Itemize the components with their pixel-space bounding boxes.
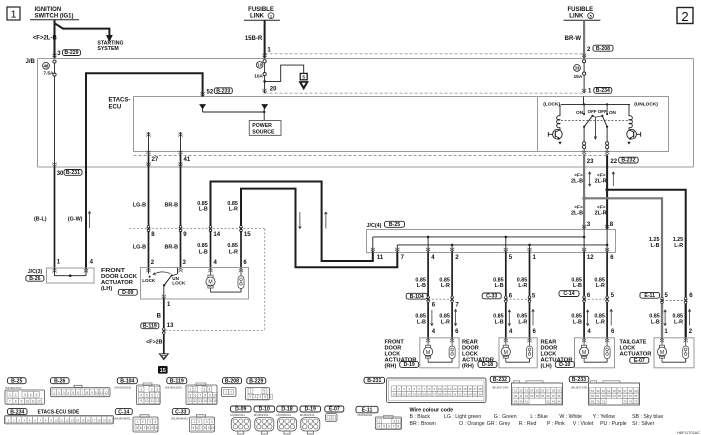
svg-text:7: 7 <box>144 426 146 430</box>
svg-text:26: 26 <box>541 389 545 393</box>
svg-text:L : Blue: L : Blue <box>530 414 548 420</box>
svg-text:3: 3 <box>63 391 65 395</box>
svg-text:52: 52 <box>596 389 600 393</box>
svg-text:L-B: L-B <box>495 319 504 325</box>
svg-text:43: 43 <box>552 399 556 403</box>
svg-text:6: 6 <box>388 425 390 429</box>
svg-text:13: 13 <box>198 399 202 403</box>
svg-text:27: 27 <box>546 389 550 393</box>
svg-text:40: 40 <box>519 399 523 403</box>
svg-text:2: 2 <box>250 395 252 399</box>
svg-text:64: 64 <box>613 394 617 398</box>
svg-text:5: 5 <box>302 75 305 80</box>
svg-text:(B-L): (B-L) <box>34 216 47 222</box>
svg-text:M: M <box>582 350 586 356</box>
svg-text:J/C(3): J/C(3) <box>28 269 43 275</box>
svg-text:LG-B: LG-B <box>133 202 146 208</box>
svg-text:3: 3 <box>156 388 158 392</box>
svg-text:ETACS-: ETACS- <box>109 97 131 103</box>
svg-text:11: 11 <box>189 399 193 403</box>
svg-text:5: 5 <box>193 426 195 430</box>
svg-text:22: 22 <box>408 393 412 397</box>
svg-text:12: 12 <box>156 399 160 403</box>
svg-text:(UNLOCK): (UNLOCK) <box>634 102 658 108</box>
svg-text:44: 44 <box>557 399 561 403</box>
svg-text:2: 2 <box>151 388 153 392</box>
svg-text:4: 4 <box>211 420 213 424</box>
svg-text:B-231: B-231 <box>367 378 381 384</box>
svg-text:0.85: 0.85 <box>197 243 208 249</box>
svg-text:4: 4 <box>259 395 261 399</box>
svg-text:7.5A: 7.5A <box>43 70 54 76</box>
svg-text:19: 19 <box>392 393 396 397</box>
svg-text:1: 1 <box>140 388 142 392</box>
svg-text:L-B: L-B <box>651 319 660 325</box>
svg-text:67: 67 <box>629 394 633 398</box>
svg-text:B-234: B-234 <box>10 409 24 415</box>
svg-text:68: 68 <box>634 394 638 398</box>
svg-text:(LH): (LH) <box>541 364 552 370</box>
svg-text:62: 62 <box>602 394 606 398</box>
svg-text:ON: ON <box>576 110 584 115</box>
svg-text:26: 26 <box>428 393 432 397</box>
svg-text:15: 15 <box>463 387 467 391</box>
svg-text:12: 12 <box>448 387 452 391</box>
svg-text:13: 13 <box>167 323 174 329</box>
svg-text:MU801020: MU801020 <box>358 413 373 417</box>
svg-text:3: 3 <box>206 420 208 424</box>
svg-text:38: 38 <box>557 394 561 398</box>
svg-text:L-R: L-R <box>596 283 605 289</box>
svg-text:15: 15 <box>208 399 212 403</box>
svg-text:J/B: J/B <box>26 59 36 65</box>
svg-text:5: 5 <box>264 395 266 399</box>
svg-text:B-26: B-26 <box>54 378 65 384</box>
svg-text:56: 56 <box>618 389 622 393</box>
svg-text:7: 7 <box>200 426 202 430</box>
svg-text:8: 8 <box>204 426 206 430</box>
svg-text:14: 14 <box>76 419 80 423</box>
svg-text:M: M <box>504 350 508 356</box>
svg-text:L-R: L-R <box>441 319 450 325</box>
svg-text:8: 8 <box>204 393 206 397</box>
svg-text:POWER: POWER <box>252 123 272 129</box>
svg-text:15A: 15A <box>573 74 582 80</box>
svg-text:B-104: B-104 <box>410 294 424 300</box>
svg-text:33: 33 <box>463 393 467 397</box>
svg-text:9: 9 <box>208 426 210 430</box>
svg-text:14: 14 <box>213 232 220 238</box>
svg-text:D-19: D-19 <box>404 362 415 368</box>
svg-text:54: 54 <box>607 389 611 393</box>
svg-text:W : White: W : White <box>559 414 582 420</box>
svg-text:57: 57 <box>623 389 627 393</box>
svg-text:2: 2 <box>198 420 200 424</box>
svg-text:PU : Purple: PU : Purple <box>600 421 627 427</box>
svg-text:12: 12 <box>587 255 594 261</box>
svg-text:B-229: B-229 <box>64 50 78 56</box>
svg-text:2L-R: 2L-R <box>595 178 607 184</box>
svg-text:30: 30 <box>514 394 518 398</box>
svg-text:C-33: C-33 <box>175 409 186 415</box>
svg-text:22: 22 <box>519 389 523 393</box>
svg-text:B-208: B-208 <box>225 378 239 384</box>
svg-text:C-14: C-14 <box>563 291 574 297</box>
svg-text:L-B: L-B <box>199 207 208 213</box>
svg-text:5: 5 <box>146 393 148 397</box>
svg-text:LINK: LINK <box>569 14 584 20</box>
svg-text:4: 4 <box>140 393 142 397</box>
svg-text:3: 3 <box>398 419 400 423</box>
svg-text:11: 11 <box>100 391 104 395</box>
svg-text:10: 10 <box>213 393 217 397</box>
svg-text:B-104: B-104 <box>120 378 134 384</box>
svg-text:3: 3 <box>204 388 206 392</box>
svg-text:23: 23 <box>525 389 529 393</box>
svg-text:10A: 10A <box>254 74 263 80</box>
svg-text:OFF: OFF <box>588 109 597 114</box>
svg-text:13: 13 <box>71 419 75 423</box>
svg-text:<F>2L-B: <F>2L-B <box>33 36 58 42</box>
svg-text:L-R: L-R <box>518 319 527 325</box>
svg-text:D-18: D-18 <box>482 362 493 368</box>
svg-text:17: 17 <box>92 419 96 423</box>
svg-text:15: 15 <box>244 232 251 238</box>
svg-text:BR-W: BR-W <box>565 36 582 42</box>
svg-text:E-07: E-07 <box>329 407 340 413</box>
svg-text:36: 36 <box>478 393 482 397</box>
svg-text:52: 52 <box>207 89 214 95</box>
svg-text:9: 9 <box>91 391 93 395</box>
svg-text:59: 59 <box>634 389 638 393</box>
svg-text:(LH): (LH) <box>101 286 112 292</box>
svg-text:LG-B: LG-B <box>133 245 146 251</box>
svg-text:1: 1 <box>190 388 192 392</box>
svg-text:3: 3 <box>24 393 26 397</box>
svg-text:74: 74 <box>629 400 633 404</box>
svg-text:FUSIBLE: FUSIBLE <box>567 7 593 13</box>
svg-text:M: M <box>660 350 664 356</box>
svg-text:41: 41 <box>525 399 529 403</box>
svg-text:11: 11 <box>443 387 446 391</box>
svg-text:65: 65 <box>618 394 622 398</box>
svg-text:LOCK: LOCK <box>142 278 156 283</box>
svg-text:34: 34 <box>536 394 540 398</box>
svg-text:33: 33 <box>530 394 534 398</box>
svg-text:Y : Yellow: Y : Yellow <box>593 414 616 420</box>
svg-text:<F>2B: <F>2B <box>146 340 163 346</box>
svg-text:10: 10 <box>257 63 262 68</box>
svg-text:5: 5 <box>36 393 38 397</box>
svg-text:1: 1 <box>250 390 252 394</box>
svg-text:D-10: D-10 <box>559 362 570 368</box>
svg-text:48: 48 <box>44 63 49 68</box>
svg-text:58: 58 <box>629 389 633 393</box>
svg-text:B: B <box>157 314 162 320</box>
svg-text:SWITCH (IG1): SWITCH (IG1) <box>35 13 74 19</box>
svg-text:MU802341: MU802341 <box>300 413 315 417</box>
svg-text:10: 10 <box>154 426 158 430</box>
svg-text:B-233: B-233 <box>216 88 230 94</box>
svg-text:19: 19 <box>103 419 107 423</box>
svg-text:ETACS-ECU SIDE: ETACS-ECU SIDE <box>38 410 81 416</box>
svg-text:15: 15 <box>160 368 166 374</box>
svg-text:0.85: 0.85 <box>227 243 238 249</box>
svg-text:51: 51 <box>591 389 595 393</box>
svg-text:13: 13 <box>453 387 457 391</box>
svg-text:28: 28 <box>438 393 442 397</box>
svg-text:(RH): (RH) <box>462 364 474 370</box>
svg-text:BR-B: BR-B <box>165 202 179 208</box>
svg-text:18: 18 <box>478 387 482 391</box>
svg-text:16: 16 <box>87 419 91 423</box>
svg-text:14: 14 <box>458 387 462 391</box>
svg-text:L-B: L-B <box>651 243 660 249</box>
svg-text:L-B: L-B <box>495 283 504 289</box>
svg-text:L-R: L-R <box>518 283 527 289</box>
svg-text:4: 4 <box>154 420 156 424</box>
svg-text:6: 6 <box>140 426 142 430</box>
svg-text:V : Violet: V : Violet <box>573 421 594 427</box>
svg-text:31: 31 <box>519 394 523 398</box>
svg-text:MU802341: MU802341 <box>230 413 245 417</box>
svg-text:5: 5 <box>264 390 266 394</box>
svg-text:SYSTEM: SYSTEM <box>97 46 118 52</box>
svg-text:29: 29 <box>443 393 447 397</box>
svg-text:B-232: B-232 <box>621 158 635 164</box>
svg-text:R : Red: R : Red <box>519 421 537 427</box>
svg-text:H8F11T02AC: H8F11T02AC <box>677 431 700 435</box>
svg-text:LINK: LINK <box>250 14 265 20</box>
svg-text:1: 1 <box>11 8 17 20</box>
svg-text:7: 7 <box>199 393 201 397</box>
svg-text:42: 42 <box>546 399 550 403</box>
svg-text:B-25: B-25 <box>389 222 400 228</box>
svg-text:L-B: L-B <box>417 283 426 289</box>
svg-text:10: 10 <box>145 399 149 403</box>
svg-text:(MU804845): (MU804845) <box>114 417 131 421</box>
svg-text:G : Green: G : Green <box>494 414 517 420</box>
svg-text:15: 15 <box>81 419 85 423</box>
svg-text:6: 6 <box>196 426 198 430</box>
svg-text:69: 69 <box>591 400 595 404</box>
svg-text:B-232: B-232 <box>493 377 507 383</box>
svg-text:B : Black: B : Black <box>410 414 431 420</box>
svg-text:1: 1 <box>193 420 195 424</box>
svg-text:9: 9 <box>151 426 153 430</box>
svg-text:2: 2 <box>393 419 395 423</box>
svg-text:4: 4 <box>378 425 380 429</box>
svg-text:(MU807149): (MU807149) <box>492 385 509 389</box>
svg-text:22: 22 <box>610 159 617 165</box>
svg-text:1: 1 <box>53 391 55 395</box>
svg-text:18: 18 <box>97 419 101 423</box>
svg-text:15B-R: 15B-R <box>245 36 263 42</box>
svg-text:27: 27 <box>152 157 159 163</box>
svg-text:35: 35 <box>541 394 545 398</box>
svg-text:12: 12 <box>194 399 198 403</box>
svg-text:20: 20 <box>397 393 401 397</box>
svg-text:(MU807145): (MU807145) <box>571 385 588 389</box>
svg-text:10: 10 <box>95 391 99 395</box>
svg-text:1: 1 <box>9 393 11 397</box>
svg-text:(MU801019): (MU801019) <box>115 386 132 390</box>
svg-text:L-B: L-B <box>417 319 426 325</box>
svg-text:(MU804845): (MU804845) <box>171 417 188 421</box>
svg-text:L-R: L-R <box>596 319 605 325</box>
svg-text:GR : Grey: GR : Grey <box>487 421 511 427</box>
svg-text:SB : Sky blue: SB : Sky blue <box>632 414 663 420</box>
svg-text:6: 6 <box>194 393 196 397</box>
svg-text:9: 9 <box>209 393 211 397</box>
svg-text:29: 29 <box>557 389 561 393</box>
svg-text:75: 75 <box>634 400 638 404</box>
svg-text:8: 8 <box>397 425 399 429</box>
svg-text:36: 36 <box>546 394 550 398</box>
svg-text:M: M <box>208 280 212 286</box>
svg-text:L-B: L-B <box>573 283 582 289</box>
svg-text:D-09: D-09 <box>235 407 246 413</box>
svg-text:35: 35 <box>473 393 477 397</box>
svg-text:ACTUATOR: ACTUATOR <box>620 352 652 358</box>
svg-text:33: 33 <box>575 66 580 71</box>
svg-text:20: 20 <box>108 419 112 423</box>
svg-text:ECU: ECU <box>109 104 122 110</box>
svg-text:E-11: E-11 <box>644 293 655 299</box>
svg-text:L-R: L-R <box>674 243 683 249</box>
svg-text:10: 10 <box>55 419 59 423</box>
svg-text:FUSIBLE: FUSIBLE <box>248 7 274 13</box>
svg-text:61: 61 <box>596 394 600 398</box>
svg-text:37: 37 <box>552 394 556 398</box>
svg-text:7: 7 <box>157 393 159 397</box>
svg-text:J/C(4): J/C(4) <box>367 223 382 229</box>
svg-text:2: 2 <box>194 388 196 392</box>
svg-text:SI : Silver: SI : Silver <box>632 421 654 427</box>
svg-text:11: 11 <box>377 255 384 261</box>
svg-text:12: 12 <box>65 419 69 423</box>
svg-text:2L-B: 2L-B <box>571 210 583 216</box>
svg-text:B-25: B-25 <box>11 378 22 384</box>
svg-text:9: 9 <box>140 399 142 403</box>
svg-text:14: 14 <box>203 399 207 403</box>
svg-text:4: 4 <box>30 393 32 397</box>
svg-text:O : Orange: O : Orange <box>459 421 485 427</box>
svg-text:2L-B: 2L-B <box>571 178 583 184</box>
svg-text:24: 24 <box>418 393 422 397</box>
svg-text:23: 23 <box>587 159 594 165</box>
svg-text:39: 39 <box>514 399 518 403</box>
svg-text:E-07: E-07 <box>634 358 645 364</box>
svg-text:4: 4 <box>208 388 210 392</box>
svg-text:D-09: D-09 <box>122 290 133 296</box>
svg-text:21: 21 <box>514 389 518 393</box>
svg-text:28: 28 <box>552 389 556 393</box>
svg-text:1: 1 <box>379 419 381 423</box>
svg-text:B-229: B-229 <box>249 378 263 384</box>
svg-text:4: 4 <box>68 391 70 395</box>
svg-text:32: 32 <box>458 393 462 397</box>
svg-text:71: 71 <box>602 400 606 404</box>
svg-text:63: 63 <box>607 394 611 398</box>
svg-text:21: 21 <box>402 393 406 397</box>
svg-text:L-B: L-B <box>573 319 582 325</box>
svg-text:D-10: D-10 <box>259 407 270 413</box>
svg-text:53: 53 <box>602 389 606 393</box>
svg-text:27: 27 <box>433 393 437 397</box>
svg-text:5: 5 <box>383 425 385 429</box>
svg-text:1: 1 <box>137 420 139 424</box>
svg-text:10: 10 <box>438 387 442 391</box>
svg-text:10: 10 <box>26 400 30 404</box>
svg-text:3: 3 <box>149 420 151 424</box>
svg-text:2L-R: 2L-R <box>595 210 607 216</box>
svg-text:12: 12 <box>37 400 41 404</box>
svg-text:B-119: B-119 <box>143 323 157 329</box>
svg-text:32: 32 <box>525 394 529 398</box>
svg-text:20: 20 <box>270 86 277 92</box>
svg-text:2: 2 <box>142 420 144 424</box>
svg-text:25: 25 <box>423 393 427 397</box>
svg-text:2: 2 <box>58 391 60 395</box>
svg-text:23: 23 <box>413 393 417 397</box>
svg-text:8: 8 <box>15 400 17 404</box>
svg-text:B-234: B-234 <box>596 88 610 94</box>
svg-text:(LOCK): (LOCK) <box>543 102 560 108</box>
svg-text:(RH): (RH) <box>385 364 397 370</box>
svg-text:(MU801052): (MU801052) <box>5 386 22 390</box>
svg-text:7: 7 <box>82 391 84 395</box>
svg-text:16: 16 <box>213 399 217 403</box>
svg-text:31: 31 <box>453 393 457 397</box>
svg-text:MU802341: MU802341 <box>277 413 292 417</box>
svg-text:5: 5 <box>136 426 138 430</box>
svg-text:(MU801505): (MU801505) <box>165 386 182 390</box>
svg-text:B-119: B-119 <box>170 378 184 384</box>
svg-text:B-231: B-231 <box>66 170 80 176</box>
svg-text:B-26: B-26 <box>29 276 40 282</box>
svg-text:73: 73 <box>623 400 627 404</box>
svg-text:8: 8 <box>86 391 88 395</box>
svg-text:2: 2 <box>230 390 232 394</box>
svg-text:SOURCE: SOURCE <box>252 130 275 136</box>
svg-text:17: 17 <box>473 387 477 391</box>
svg-text:C-14: C-14 <box>118 409 129 415</box>
svg-text:24: 24 <box>530 389 534 393</box>
svg-text:OFF: OFF <box>598 109 607 114</box>
svg-text:D-19: D-19 <box>305 407 316 413</box>
svg-text:BR-B: BR-B <box>165 245 179 251</box>
svg-text:6: 6 <box>151 393 153 397</box>
svg-text:6: 6 <box>269 395 271 399</box>
svg-text:(G-W): (G-W) <box>68 216 83 222</box>
svg-text:5: 5 <box>190 393 192 397</box>
svg-text:LG : Light green: LG : Light green <box>444 414 481 420</box>
svg-text:2: 2 <box>15 393 17 397</box>
svg-text:11: 11 <box>60 419 63 423</box>
svg-text:30: 30 <box>448 393 452 397</box>
svg-text:60: 60 <box>591 394 595 398</box>
svg-text:C-33: C-33 <box>486 294 497 300</box>
svg-text:L-B: L-B <box>199 249 208 255</box>
svg-text:B-208: B-208 <box>596 46 610 52</box>
svg-text:IGNITION: IGNITION <box>35 7 62 13</box>
svg-text:L-R: L-R <box>441 283 450 289</box>
svg-text:70: 70 <box>596 400 600 404</box>
svg-text:2: 2 <box>681 9 688 24</box>
svg-text:8: 8 <box>147 426 149 430</box>
svg-text:41: 41 <box>184 157 191 163</box>
